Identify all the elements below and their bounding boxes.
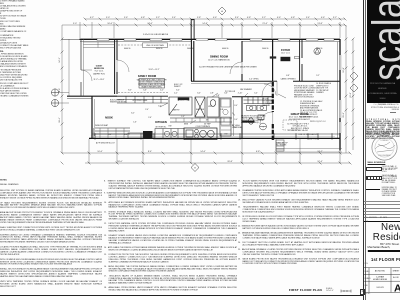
svg-text:3'-4": 3'-4" — [234, 105, 238, 107]
svg-text:5'-0": 5'-0" — [106, 17, 110, 19]
svg-text:3-1/2x11-1/4 GLB HDR ABOVE: 3-1/2x11-1/4 GLB HDR ABOVE — [143, 33, 169, 36]
svg-text:DW: DW — [169, 126, 172, 128]
svg-text:FLOOR THROUGHOUT: FLOOR THROUGHOUT — [289, 119, 310, 121]
svg-text:5040 SL: 5040 SL — [262, 48, 269, 50]
svg-text:14'-6": 14'-6" — [200, 151, 206, 153]
svg-text:5'-0" OPNG.: 5'-0" OPNG. — [249, 79, 259, 81]
svg-text:INSERT: INSERT — [174, 86, 181, 88]
svg-text:4'-8": 4'-8" — [141, 17, 145, 19]
svg-text:5'-6": 5'-6" — [143, 90, 147, 92]
svg-text:6'-4": 6'-4" — [176, 90, 180, 92]
svg-text:2'-4": 2'-4" — [145, 109, 149, 111]
svg-text:14. SEE SHEET A-301: 14. SEE SHEET A-301 — [300, 115, 318, 118]
svg-text:LIN.: LIN. — [220, 109, 224, 111]
svg-text:3'-2": 3'-2" — [333, 17, 337, 19]
svg-text:SHEET: SHEET — [393, 271, 400, 273]
svg-text:12'-8": 12'-8" — [343, 67, 345, 73]
svg-text:8'-6": 8'-6" — [59, 88, 61, 92]
svg-text:3'-6": 3'-6" — [224, 93, 228, 95]
svg-text:5'-8": 5'-8" — [197, 17, 201, 19]
svg-text:FOYER: FOYER — [281, 48, 290, 52]
svg-text:AS NOTED: AS NOTED — [375, 270, 386, 273]
svg-text:5'-2": 5'-2" — [316, 75, 320, 77]
svg-text:GUARDRAIL: GUARDRAIL — [232, 126, 242, 129]
svg-text:JOB: JOB — [364, 285, 367, 287]
svg-text:2'-8": 2'-8" — [210, 93, 214, 95]
svg-text:LINE OF SOFFIT ABV.: LINE OF SOFFIT ABV. — [146, 44, 165, 47]
svg-text:5'-4": 5'-4" — [254, 93, 258, 95]
svg-text:PANTRY: PANTRY — [179, 100, 188, 103]
svg-text:10'-0" CLG.: 10'-0" CLG. — [281, 53, 291, 55]
svg-text:HOME DESIGN: HOME DESIGN — [373, 279, 388, 281]
svg-text:2'-6": 2'-6" — [148, 117, 152, 119]
svg-text:x: x — [155, 132, 156, 134]
svg-text:24-1023: 24-1023 — [376, 287, 384, 289]
svg-text:10'-6": 10'-6" — [97, 151, 103, 153]
svg-text:22'-0": 22'-0" — [350, 92, 352, 98]
svg-text:2'-10": 2'-10" — [238, 93, 243, 95]
svg-text:5'-4": 5'-4" — [172, 17, 176, 19]
svg-text:13'-8": 13'-8" — [317, 23, 323, 25]
svg-text:3'-0": 3'-0" — [108, 134, 112, 136]
svg-text:3-LIGHT PENDANT FIXTURE CENTER: 3-LIGHT PENDANT FIXTURE CENTERED OVER TA… — [199, 66, 257, 69]
svg-text:24'-6": 24'-6" — [147, 23, 153, 25]
svg-text:SEE DOOR SCHEDULE: SEE DOOR SCHEDULE — [294, 97, 315, 99]
svg-text:16'-4": 16'-4" — [59, 117, 61, 123]
svg-text:36" HIGH ISL.: 36" HIGH ISL. — [155, 126, 167, 128]
svg-text:LINE OF DECK ABOVE: LINE OF DECK ABOVE — [298, 133, 318, 136]
svg-text:3'-0": 3'-0" — [158, 106, 162, 108]
svg-text:PANTRY: PANTRY — [172, 109, 180, 112]
svg-text:21'-4": 21'-4" — [262, 23, 268, 25]
svg-text:CHIMNEY: CHIMNEY — [316, 92, 325, 94]
svg-text:18'-0": 18'-0" — [117, 161, 123, 163]
svg-text:A: A — [394, 282, 400, 294]
svg-text:15'-6": 15'-6" — [343, 112, 345, 118]
svg-text:A1 OF: A1 OF — [393, 276, 400, 279]
svg-text:4'-6": 4'-6" — [277, 17, 281, 19]
svg-text:DINING ROOM: DINING ROOM — [210, 55, 228, 59]
svg-text:6'-8": 6'-8" — [286, 75, 290, 77]
svg-text:4'-8": 4'-8" — [247, 17, 251, 19]
svg-text:13'-2": 13'-2" — [317, 151, 323, 153]
svg-text:42" UPPER CABS.: 42" UPPER CABS. — [132, 99, 148, 102]
svg-text:3'-4": 3'-4" — [235, 17, 239, 19]
svg-text:19'-8" x 15'-2": 19'-8" x 15'-2" — [148, 69, 159, 71]
svg-text:1'-9": 1'-9" — [181, 116, 185, 118]
svg-text:4'-2": 4'-2" — [174, 93, 178, 95]
svg-text:DW: DW — [225, 134, 228, 136]
svg-text:6040 SL: 6040 SL — [124, 48, 131, 50]
svg-text:4'-2": 4'-2" — [90, 17, 94, 19]
svg-text:5'-2": 5'-2" — [156, 17, 160, 19]
svg-text:2'-8": 2'-8" — [216, 95, 220, 97]
svg-text:2X12 FJ @ 16" O.C.: 2X12 FJ @ 16" O.C. — [310, 121, 327, 123]
svg-text:8'-4": 8'-4" — [148, 151, 152, 153]
svg-text:4'-2": 4'-2" — [160, 90, 164, 92]
svg-text:POT FILLER: POT FILLER — [225, 91, 236, 93]
svg-text:SINK: SINK — [184, 124, 189, 126]
svg-text:CIVIL ENGINEER: CIVIL ENGINEER — [378, 155, 392, 157]
svg-text:CARPET FLR.: CARPET FLR. — [93, 72, 106, 75]
svg-text:4'-8": 4'-8" — [291, 17, 295, 19]
svg-text:DRAWN: DRAWN — [364, 277, 371, 280]
svg-text:6'-8": 6'-8" — [256, 151, 260, 153]
svg-text:14'-2": 14'-2" — [202, 23, 208, 25]
svg-text:12'-4": 12'-4" — [317, 161, 323, 163]
svg-text:5'-6": 5'-6" — [124, 17, 128, 19]
svg-text:FAMILY ROOM: FAMILY ROOM — [138, 74, 156, 78]
svg-text:4'-6": 4'-6" — [321, 17, 325, 19]
svg-text:CASED OPENING: CASED OPENING — [281, 78, 297, 81]
svg-text:B: B — [194, 167, 196, 169]
svg-text:18": 18" — [206, 120, 209, 122]
svg-text:W/ 2 RISERS: W/ 2 RISERS — [276, 145, 287, 147]
svg-text:5'-0": 5'-0" — [73, 23, 77, 25]
svg-text:1'-6": 1'-6" — [133, 122, 137, 124]
svg-text:16'-2" x 19'-4": 16'-2" x 19'-4" — [308, 139, 319, 141]
svg-text:11'-2" x 13'-6": 11'-2" x 13'-6" — [94, 79, 105, 81]
svg-text:LICENSED: LICENSED — [381, 140, 390, 142]
svg-text:A.F.F. WINDOW SILL 18": A.F.F. WINDOW SILL 18" — [96, 142, 115, 145]
svg-text:WINDOW SEAT: WINDOW SEAT — [95, 124, 109, 127]
svg-text:5'-0": 5'-0" — [234, 119, 238, 121]
svg-text:HEARTH PER MFR. SPEC: HEARTH PER MFR. SPEC — [141, 85, 162, 88]
svg-text:31. SEE DETAIL 5/A-501: 31. SEE DETAIL 5/A-501 — [288, 129, 308, 132]
svg-text:4'-6": 4'-6" — [124, 134, 128, 136]
svg-text:10'-0" CLG. HARDWOOD: 10'-0" CLG. HARDWOOD — [208, 58, 230, 61]
svg-text:14'-2": 14'-2" — [59, 57, 61, 63]
svg-text:KITCHEN: KITCHEN — [155, 120, 167, 124]
svg-text:5'-4": 5'-4" — [306, 17, 310, 19]
svg-text:MW DRAWER: MW DRAWER — [240, 88, 252, 91]
svg-text:8'-0": 8'-0" — [128, 90, 132, 92]
svg-text:A: A — [221, 10, 223, 13]
svg-text:3'-0": 3'-0" — [197, 93, 201, 95]
svg-text:5040 SL: 5040 SL — [187, 48, 194, 50]
svg-text:4'-6": 4'-6" — [213, 17, 217, 19]
svg-text:8050 SL: 8050 SL — [156, 48, 163, 50]
svg-text:4040 SL: 4040 SL — [222, 48, 229, 50]
svg-text:SEATING W/ STOR.: SEATING W/ STOR. — [110, 101, 127, 104]
svg-text:SHELVES: SHELVES — [196, 109, 205, 111]
svg-text:OAK RAIL: OAK RAIL — [262, 104, 270, 107]
svg-text:NOOK: NOOK — [105, 116, 113, 120]
svg-text:SH. NO.: SH. NO. — [364, 293, 370, 294]
svg-text:5'-2": 5'-2" — [262, 17, 266, 19]
svg-text:26'-8": 26'-8" — [227, 161, 233, 163]
svg-text:SPACE: SPACE — [204, 125, 211, 128]
svg-text:6'-2": 6'-2" — [131, 113, 135, 115]
svg-text:16'-6": 16'-6" — [107, 23, 113, 25]
